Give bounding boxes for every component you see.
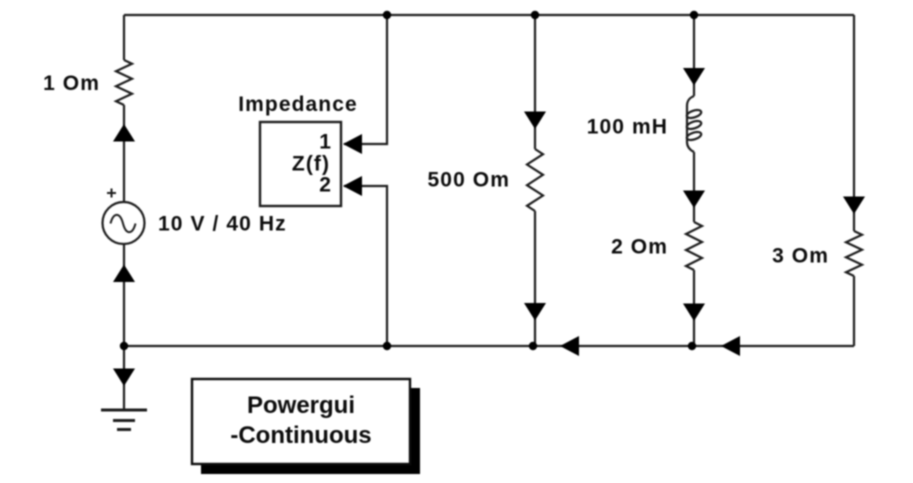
wire between L1 and R3 <box>693 152 695 222</box>
svg-text:2: 2 <box>319 174 332 197</box>
resistor R2 500 Om <box>527 149 543 211</box>
wire impedance port 2 to bottom bus <box>344 186 387 346</box>
junction node top at impedance tap <box>383 11 391 19</box>
wire top bus <box>124 14 854 16</box>
arrow left on bottom bus toward 500 Om node <box>560 336 579 356</box>
junction node bottom at 100 mH <box>688 342 696 350</box>
impedance measurement block U1 <box>260 122 341 206</box>
wire between R1 and source V1 <box>123 105 125 202</box>
junction node bottom at 500 Om <box>529 342 537 350</box>
svg-text:1: 1 <box>319 131 332 154</box>
source V1 sine wave <box>111 215 136 232</box>
label 100 mH <box>587 116 668 139</box>
arrow down into R2 <box>524 112 546 130</box>
wire to ground <box>123 346 125 409</box>
svg-text:Z(f): Z(f) <box>292 153 330 176</box>
wire 100 mH branch upper <box>693 15 695 96</box>
resistor R1 1 Om <box>116 60 132 105</box>
powergui block <box>192 379 410 464</box>
arrow into impedance port 1 <box>343 134 362 154</box>
junction node bottom at source <box>120 342 128 350</box>
label 3 Om <box>772 245 829 268</box>
wire impedance port 1 to top bus <box>344 15 387 144</box>
arrow down into L1 <box>683 68 705 86</box>
arrow up into source V1 <box>113 265 135 283</box>
wire source bottom to bottom bus <box>123 244 125 346</box>
source V1 circle <box>103 202 145 244</box>
wire 3 Om branch lower <box>853 276 855 346</box>
arrow down to ground <box>113 369 135 387</box>
junction node top at 100 mH <box>690 11 698 19</box>
label 1 Om <box>43 72 100 95</box>
label Z(f) <box>292 153 330 176</box>
junction node bottom at impedance tap <box>383 342 391 350</box>
pin 1 label <box>319 131 332 154</box>
pin 2 label <box>319 174 332 197</box>
wire 500 Om branch upper <box>534 15 536 149</box>
ground symbol <box>101 410 147 430</box>
arrow left on bottom bus toward 100 mH node <box>721 336 740 356</box>
arrow down out of R3 <box>683 304 705 322</box>
wire bottom bus <box>124 345 854 347</box>
label 500 Om <box>428 169 510 192</box>
resistor R4 3 Om <box>846 231 862 276</box>
label Powergui <box>247 392 355 419</box>
arrow down into R3 <box>683 191 705 209</box>
svg-text:100 mH: 100 mH <box>587 116 668 139</box>
wire 3 Om branch upper <box>853 15 855 231</box>
resistor R3 2 Om <box>686 222 702 270</box>
inductor L1 100 mH <box>686 96 702 152</box>
svg-text:2 Om: 2 Om <box>611 236 668 259</box>
wire left branch upper segment <box>123 15 125 60</box>
junction node top at 500 Om <box>531 11 539 19</box>
arrow down out of R2 <box>524 303 546 321</box>
powergui block shadow <box>201 388 420 474</box>
wire R3 to bottom bus <box>693 270 695 346</box>
wire 500 Om branch lower <box>534 211 536 346</box>
label 2 Om <box>611 236 668 259</box>
label Impedance <box>238 93 358 116</box>
arrow up into R1 <box>113 124 135 142</box>
svg-text:500 Om: 500 Om <box>428 169 510 192</box>
svg-text:Impedance: Impedance <box>238 93 358 116</box>
svg-text:3 Om: 3 Om <box>772 245 829 268</box>
svg-text:10 V / 40 Hz: 10 V / 40 Hz <box>158 213 287 236</box>
source V1 plus sign <box>107 189 116 198</box>
svg-text:1 Om: 1 Om <box>43 72 100 95</box>
arrow into impedance port 2 <box>343 176 362 196</box>
svg-text:Powergui: Powergui <box>247 392 355 419</box>
svg-text:-Continuous: -Continuous <box>230 422 371 449</box>
label 10 V / 40 Hz <box>158 213 287 236</box>
arrow down into R4 <box>843 197 865 215</box>
label -Continuous <box>230 422 371 449</box>
